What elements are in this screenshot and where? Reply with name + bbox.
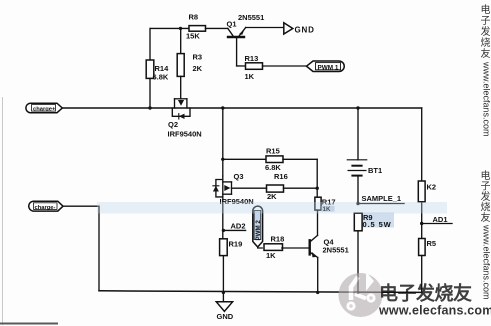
- svg-text:15K: 15K: [186, 32, 200, 41]
- resistor R8: [186, 13, 206, 41]
- svg-text:PWM 2: PWM 2: [255, 220, 262, 241]
- svg-text:2K: 2K: [267, 192, 277, 201]
- wire bottom rail: [99, 291, 422, 293]
- svg-text:子: 子: [481, 15, 491, 27]
- resistor R17: [315, 197, 336, 213]
- port PWM 2 (vertical): [253, 206, 263, 247]
- svg-text:Q1: Q1: [227, 20, 237, 29]
- svg-text:子: 子: [481, 181, 491, 193]
- svg-text:2N5551: 2N5551: [323, 245, 349, 254]
- resistor R14: [146, 28, 169, 108]
- svg-text:电子发烧友: 电子发烧友: [379, 282, 472, 305]
- svg-text:6.8K: 6.8K: [153, 73, 169, 82]
- transistor Q3 IRF9540N: [213, 172, 254, 206]
- svg-text:R3: R3: [193, 53, 203, 62]
- svg-text:友: 友: [481, 211, 491, 224]
- resistor R3: [177, 28, 202, 98]
- svg-text:R18: R18: [271, 235, 285, 244]
- port PWM 1: [307, 61, 345, 72]
- svg-text:GND: GND: [295, 26, 315, 35]
- svg-text:www.elecfans.com: www.elecfans.com: [482, 224, 491, 300]
- svg-text:发: 发: [481, 190, 491, 203]
- svg-text:1K: 1K: [266, 251, 276, 260]
- svg-text:电: 电: [481, 3, 491, 16]
- svg-text:AD1: AD1: [433, 215, 448, 224]
- wire left column (rail to Q3 to R19 to bottom): [222, 108, 224, 176]
- scan artifact left edge: [2, 97, 4, 325]
- battery BT1: [347, 108, 382, 204]
- node SAMPLE_1 label: [356, 194, 404, 205]
- watermark right edge 电子发烧友 (red, vertical): [481, 3, 491, 60]
- svg-text:6.8K: 6.8K: [265, 163, 281, 172]
- resistor R9: [354, 213, 394, 295]
- node AD1 label: [420, 215, 452, 225]
- svg-text:IRF9540N: IRF9540N: [168, 130, 202, 139]
- svg-text:BT1: BT1: [368, 166, 382, 175]
- svg-text:K2: K2: [427, 183, 437, 192]
- resistor R16: [232, 172, 318, 201]
- svg-text:发: 发: [481, 25, 491, 38]
- svg-text:R19: R19: [229, 240, 243, 249]
- svg-text:电: 电: [481, 169, 491, 182]
- svg-text:PWM 1: PWM 1: [318, 64, 339, 71]
- svg-text:GND: GND: [217, 312, 234, 321]
- resistor R13: [237, 54, 307, 81]
- wire top node horizontal R14-R3-R8: [151, 27, 189, 29]
- svg-text:R13: R13: [245, 54, 259, 63]
- highlight band (selection artifact): [97, 202, 447, 214]
- svg-text:Q2: Q2: [168, 120, 178, 129]
- resistor R18: [258, 235, 310, 261]
- svg-text:烧: 烧: [481, 201, 491, 214]
- svg-text:R15: R15: [266, 147, 280, 156]
- ground GND (bottom): [216, 291, 233, 321]
- watermark right edge tile2 红 vertical: [481, 169, 491, 224]
- svg-text:友: 友: [481, 47, 491, 60]
- node dot rail-left column: [221, 106, 224, 109]
- node junction dot top: [179, 27, 182, 30]
- svg-text:Q3: Q3: [234, 172, 244, 181]
- resistor K2: [418, 181, 436, 224]
- svg-text:1K: 1K: [245, 72, 255, 81]
- svg-text:烧: 烧: [481, 36, 491, 49]
- wire main top rail: [62, 107, 421, 109]
- wire rail right corner down to K2: [421, 108, 423, 181]
- svg-text:R16: R16: [274, 172, 288, 181]
- node dot rail-R14: [148, 106, 151, 109]
- svg-text:www.elecfans.com: www.elecfans.com: [378, 304, 491, 318]
- node AD2 label: [222, 222, 246, 232]
- port charge-: [29, 201, 63, 211]
- transistor Q2 IRF9540N: [168, 99, 202, 139]
- resistor R15: [223, 147, 317, 172]
- svg-text:2K: 2K: [193, 64, 203, 73]
- watermark logo (elecfans) bottom right: [339, 272, 383, 317]
- scan artifact bottom left: [0, 323, 58, 325]
- resistor R19: [220, 239, 243, 256]
- transistor Q1: [227, 13, 284, 66]
- svg-text:R8: R8: [189, 13, 199, 22]
- svg-text:0.5 5W: 0.5 5W: [363, 220, 392, 229]
- svg-text:charge-: charge-: [35, 205, 56, 211]
- node dot rail-battery: [356, 106, 359, 109]
- svg-text:AD2: AD2: [231, 222, 246, 231]
- wire right mid column R15-R16-R17: [316, 159, 318, 197]
- ground GND (top right arrow): [284, 23, 315, 35]
- wire charge- down-left leg: [63, 206, 99, 291]
- wire R8 to Q1 base: [206, 27, 228, 29]
- svg-text:R5: R5: [427, 239, 437, 248]
- svg-text:www.elecfans.com: www.elecfans.com: [482, 61, 491, 137]
- svg-text:charge+: charge+: [33, 107, 56, 113]
- port charge+: [26, 103, 62, 113]
- svg-text:SAMPLE_1: SAMPLE_1: [362, 194, 402, 203]
- transistor Q4 2N5551: [310, 210, 349, 294]
- resistor R5: [419, 224, 436, 293]
- svg-text:2N5551: 2N5551: [238, 13, 264, 22]
